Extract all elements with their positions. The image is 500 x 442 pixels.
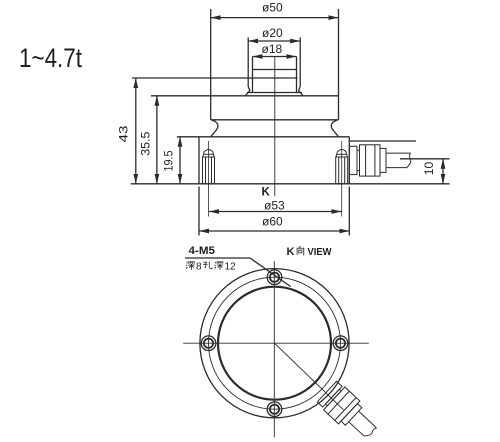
mounting screw left bbox=[203, 141, 215, 217]
horizontal centerline bbox=[183, 342, 369, 344]
dim d50 extension line right / body right side bbox=[338, 9, 340, 120]
svg-text:1~4.7t: 1~4.7t bbox=[19, 43, 82, 73]
svg-text:ø18: ø18 bbox=[262, 42, 283, 56]
svg-text:35.5: 35.5 bbox=[139, 131, 153, 155]
base top face line (with 19.5 extension) bbox=[177, 136, 349, 138]
load button skirt right bbox=[299, 87, 303, 96]
dim d20 line (button top) bbox=[248, 40, 300, 42]
dim 35.5 line bbox=[156, 96, 158, 184]
dim 19.5 line bbox=[179, 137, 181, 184]
load button skirt left bbox=[246, 87, 250, 96]
neck fillet right bbox=[331, 120, 338, 137]
cable gland side view bbox=[350, 145, 411, 176]
base left side bbox=[198, 137, 200, 184]
dim 10 top extension bbox=[400, 158, 450, 160]
neck fillet left bbox=[211, 120, 218, 137]
load button inner left line bbox=[252, 57, 254, 93]
inner circle (bold) bbox=[218, 287, 331, 400]
dim d18 line bbox=[253, 56, 297, 58]
body bottom ledge line bbox=[211, 119, 339, 121]
load button inner step line bbox=[253, 69, 297, 71]
bolt hole right bbox=[333, 336, 348, 351]
centerline of side view bbox=[274, 57, 276, 197]
svg-text:K: K bbox=[262, 187, 271, 199]
svg-text:10: 10 bbox=[422, 161, 436, 175]
dim d50 line bbox=[211, 17, 339, 19]
base right flat line bbox=[349, 140, 416, 142]
dim 43 top extension line crossing button bbox=[132, 77, 298, 79]
svg-text:8: 8 bbox=[196, 262, 202, 273]
dim d60 extension left bbox=[198, 187, 200, 236]
bolt hole top bbox=[267, 270, 282, 285]
svg-text:ø60: ø60 bbox=[262, 215, 283, 229]
bolt pitch circle d53 bbox=[209, 277, 341, 409]
dim 43 line bbox=[135, 78, 137, 184]
svg-text:43: 43 bbox=[117, 125, 131, 142]
load button inner right line bbox=[296, 57, 298, 93]
base right side bbox=[348, 137, 350, 184]
dim d53 line bbox=[209, 211, 342, 213]
base bottom line (with dim extensions both sides) bbox=[131, 183, 450, 185]
dim d50 extension line left / body left side bbox=[210, 9, 212, 120]
label K direction view bbox=[287, 246, 333, 258]
body top face line (with 35.5 extension) bbox=[151, 95, 339, 97]
leader line for 4-M5 note bbox=[185, 258, 291, 287]
cable gland bottom view (rotated 44deg) bbox=[316, 380, 382, 442]
svg-text:VIEW: VIEW bbox=[308, 247, 333, 258]
load button skirt top line bbox=[247, 92, 302, 94]
load button outer left line bbox=[247, 38, 249, 87]
vertical centerline bbox=[273, 261, 275, 437]
outer circle d60 bbox=[200, 269, 349, 418]
load button outer right line bbox=[299, 38, 301, 87]
svg-text:19.5: 19.5 bbox=[162, 150, 176, 171]
svg-text:ø53: ø53 bbox=[264, 199, 285, 213]
diagonal centerline to gland bbox=[275, 343, 344, 410]
dim d60 line bbox=[199, 230, 349, 232]
bolt hole bottom bbox=[267, 402, 282, 417]
svg-text:ø20: ø20 bbox=[262, 26, 283, 40]
dim d60 extension right bbox=[348, 187, 350, 236]
label hole depth note bbox=[186, 262, 236, 273]
mounting screw right bbox=[336, 141, 348, 217]
svg-text:12: 12 bbox=[225, 262, 237, 273]
bolt hole left bbox=[201, 336, 216, 351]
dim 10 line bbox=[442, 159, 444, 184]
svg-text:ø50: ø50 bbox=[262, 1, 283, 15]
svg-text:K: K bbox=[287, 246, 295, 258]
svg-text:4-M5: 4-M5 bbox=[189, 245, 216, 257]
